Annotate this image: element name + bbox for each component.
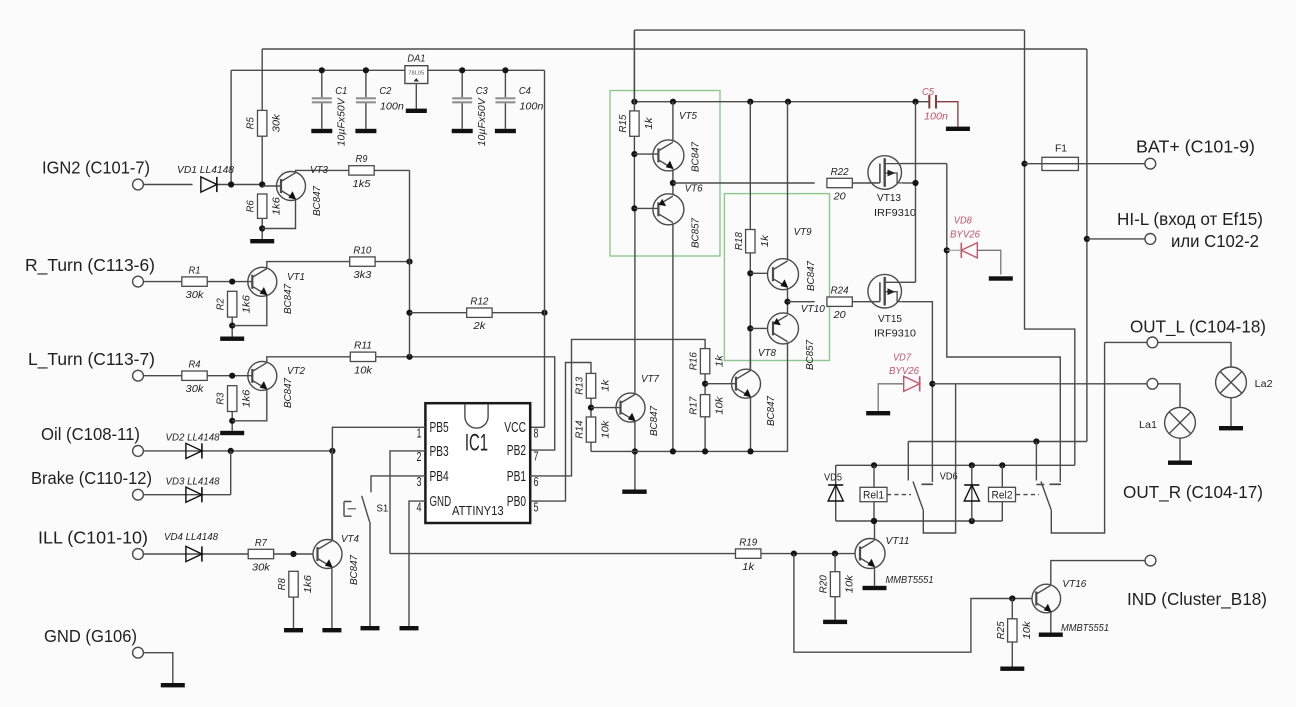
svg-text:BC847: BC847: [649, 405, 660, 436]
svg-text:R14: R14: [575, 420, 586, 438]
svg-text:R2: R2: [216, 298, 227, 310]
svg-text:ATTINY13: ATTINY13: [452, 503, 504, 518]
svg-text:R16: R16: [689, 352, 700, 370]
svg-text:100n: 100n: [380, 101, 404, 112]
svg-text:F1: F1: [1055, 144, 1067, 155]
svg-text:La2: La2: [1255, 379, 1273, 390]
svg-text:20: 20: [833, 192, 846, 203]
svg-text:1k: 1k: [644, 117, 655, 130]
svg-text:OUT_L (C104-18): OUT_L (C104-18): [1130, 317, 1266, 338]
svg-text:10k: 10k: [354, 365, 373, 376]
svg-text:BC847: BC847: [690, 141, 701, 172]
svg-text:VT10: VT10: [801, 304, 825, 315]
svg-text:R15: R15: [618, 114, 629, 132]
svg-text:PB5: PB5: [430, 419, 449, 436]
svg-text:1k: 1k: [715, 354, 726, 367]
svg-text:PB1: PB1: [507, 468, 526, 485]
svg-text:VT7: VT7: [641, 374, 660, 385]
svg-text:PB0: PB0: [507, 493, 526, 510]
svg-text:или C102-2: или C102-2: [1171, 231, 1259, 251]
svg-text:10k: 10k: [715, 396, 726, 415]
svg-text:VT13: VT13: [877, 193, 901, 204]
svg-text:6: 6: [534, 475, 539, 489]
svg-text:2: 2: [417, 450, 422, 464]
svg-text:VT1: VT1: [287, 272, 305, 283]
svg-text:R25: R25: [996, 621, 1007, 639]
svg-text:VD7: VD7: [893, 353, 912, 364]
svg-text:C4: C4: [519, 86, 531, 97]
svg-text:BC847: BC847: [806, 260, 817, 291]
svg-text:IRF9310: IRF9310: [874, 208, 916, 219]
svg-text:VD8: VD8: [954, 216, 972, 227]
svg-text:Rel2: Rel2: [992, 490, 1013, 502]
svg-text:VD1 LL4148: VD1 LL4148: [177, 165, 234, 176]
svg-text:5: 5: [534, 500, 539, 514]
svg-text:R4: R4: [189, 360, 201, 371]
svg-text:R24: R24: [831, 286, 849, 297]
svg-text:BC857: BC857: [690, 217, 701, 248]
svg-text:VT11: VT11: [886, 536, 910, 547]
svg-text:Oil (C108-11): Oil (C108-11): [41, 424, 140, 444]
svg-text:BC847: BC847: [312, 185, 323, 216]
svg-text:3: 3: [417, 475, 422, 489]
svg-text:S1: S1: [376, 504, 388, 515]
svg-text:1k6: 1k6: [242, 295, 253, 313]
svg-text:BYV26: BYV26: [889, 366, 919, 377]
svg-text:R10: R10: [353, 245, 371, 256]
svg-text:R19: R19: [739, 537, 757, 548]
svg-text:IND (Cluster_B18): IND (Cluster_B18): [1127, 589, 1267, 610]
svg-text:10µFx50V: 10µFx50V: [336, 97, 347, 146]
svg-text:IC1: IC1: [465, 430, 488, 457]
svg-text:BC847: BC847: [283, 377, 294, 408]
svg-text:2k: 2k: [472, 321, 486, 332]
svg-text:VT15: VT15: [878, 314, 902, 325]
svg-text:VT5: VT5: [679, 111, 697, 122]
svg-text:30k: 30k: [272, 113, 283, 132]
svg-text:R1: R1: [189, 265, 201, 276]
svg-text:BC847: BC847: [283, 283, 294, 314]
svg-text:VT16: VT16: [1062, 579, 1086, 590]
svg-text:BC847: BC847: [766, 395, 777, 426]
svg-text:100n: 100n: [519, 101, 543, 112]
svg-text:R11: R11: [354, 341, 372, 352]
svg-text:1: 1: [417, 427, 422, 441]
svg-text:VT6: VT6: [685, 184, 703, 195]
svg-text:La1: La1: [1139, 420, 1157, 431]
svg-text:1k6: 1k6: [242, 389, 253, 407]
svg-text:R7: R7: [255, 538, 268, 549]
svg-text:PB2: PB2: [507, 442, 526, 459]
svg-text:R9: R9: [356, 154, 368, 165]
svg-text:R22: R22: [831, 167, 849, 178]
svg-text:VD3 LL4148: VD3 LL4148: [166, 477, 220, 488]
svg-text:30k: 30k: [186, 384, 205, 395]
svg-text:8: 8: [534, 427, 539, 441]
svg-text:R3: R3: [216, 392, 227, 404]
svg-text:IGN2 (C101-7): IGN2 (C101-7): [42, 158, 150, 178]
svg-text:100n: 100n: [924, 112, 948, 123]
svg-text:VT3: VT3: [310, 165, 328, 176]
svg-text:10k: 10k: [845, 574, 856, 593]
svg-text:GND: GND: [430, 493, 452, 510]
svg-text:DA1: DA1: [407, 54, 425, 65]
svg-text:C2: C2: [379, 86, 391, 97]
svg-text:BAT+ (C101-9): BAT+ (C101-9): [1136, 137, 1255, 157]
svg-text:GND (G106): GND (G106): [44, 626, 137, 646]
svg-text:R13: R13: [575, 377, 586, 395]
svg-text:R17: R17: [689, 396, 700, 415]
svg-text:1k6: 1k6: [272, 197, 283, 215]
svg-text:PB3: PB3: [430, 443, 449, 460]
svg-text:1k: 1k: [742, 562, 755, 573]
svg-text:1k: 1k: [760, 234, 771, 247]
svg-text:VT8: VT8: [758, 348, 776, 359]
svg-text:ILL (C101-10): ILL (C101-10): [38, 528, 148, 548]
svg-text:R12: R12: [470, 297, 488, 308]
svg-text:BC857: BC857: [805, 339, 816, 370]
svg-text:VD5: VD5: [824, 473, 842, 484]
svg-text:1k: 1k: [601, 379, 612, 392]
svg-text:30k: 30k: [186, 290, 205, 301]
svg-text:C1: C1: [335, 86, 347, 97]
svg-text:VT2: VT2: [287, 366, 305, 377]
svg-text:Brake (C110-12): Brake (C110-12): [31, 468, 152, 488]
svg-text:4: 4: [417, 500, 422, 514]
svg-text:R18: R18: [734, 232, 745, 250]
svg-text:MMBT5551: MMBT5551: [886, 575, 934, 586]
svg-text:20: 20: [833, 310, 846, 321]
svg-text:L_Turn (C113-7): L_Turn (C113-7): [28, 349, 155, 370]
svg-text:78L05: 78L05: [408, 71, 424, 77]
svg-text:VD2 LL4148: VD2 LL4148: [166, 433, 220, 444]
svg-text:7: 7: [534, 449, 539, 463]
svg-text:VD4 LL4148: VD4 LL4148: [164, 532, 218, 543]
svg-text:R20: R20: [819, 575, 830, 593]
svg-text:3k3: 3k3: [353, 270, 371, 281]
svg-text:VT9: VT9: [794, 227, 812, 238]
svg-text:BC847: BC847: [349, 554, 360, 585]
svg-text:VT4: VT4: [341, 534, 359, 545]
svg-text:R5: R5: [246, 117, 257, 129]
svg-text:R8: R8: [277, 578, 288, 590]
svg-text:10µFx50V: 10µFx50V: [477, 97, 488, 146]
svg-text:1k5: 1k5: [353, 179, 371, 190]
svg-text:Rel1: Rel1: [863, 490, 884, 502]
svg-text:VCC: VCC: [504, 419, 526, 436]
svg-text:10k: 10k: [1022, 621, 1033, 640]
svg-text:10k: 10k: [601, 420, 612, 439]
svg-text:R_Turn (C113-6): R_Turn (C113-6): [25, 255, 155, 276]
svg-text:R6: R6: [246, 200, 257, 212]
svg-text:1k6: 1k6: [303, 575, 314, 593]
svg-text:C5: C5: [922, 87, 934, 98]
svg-text:BYV26: BYV26: [950, 230, 980, 241]
svg-text:OUT_R (C104-17): OUT_R (C104-17): [1123, 482, 1263, 503]
svg-text:IRF9310: IRF9310: [874, 329, 916, 340]
svg-text:PB4: PB4: [430, 468, 449, 485]
svg-text:30k: 30k: [252, 563, 271, 574]
svg-text:MMBT5551: MMBT5551: [1061, 623, 1109, 634]
svg-text:HI-L (вход от Ef15): HI-L (вход от Ef15): [1117, 209, 1263, 229]
svg-text:C3: C3: [476, 86, 488, 97]
